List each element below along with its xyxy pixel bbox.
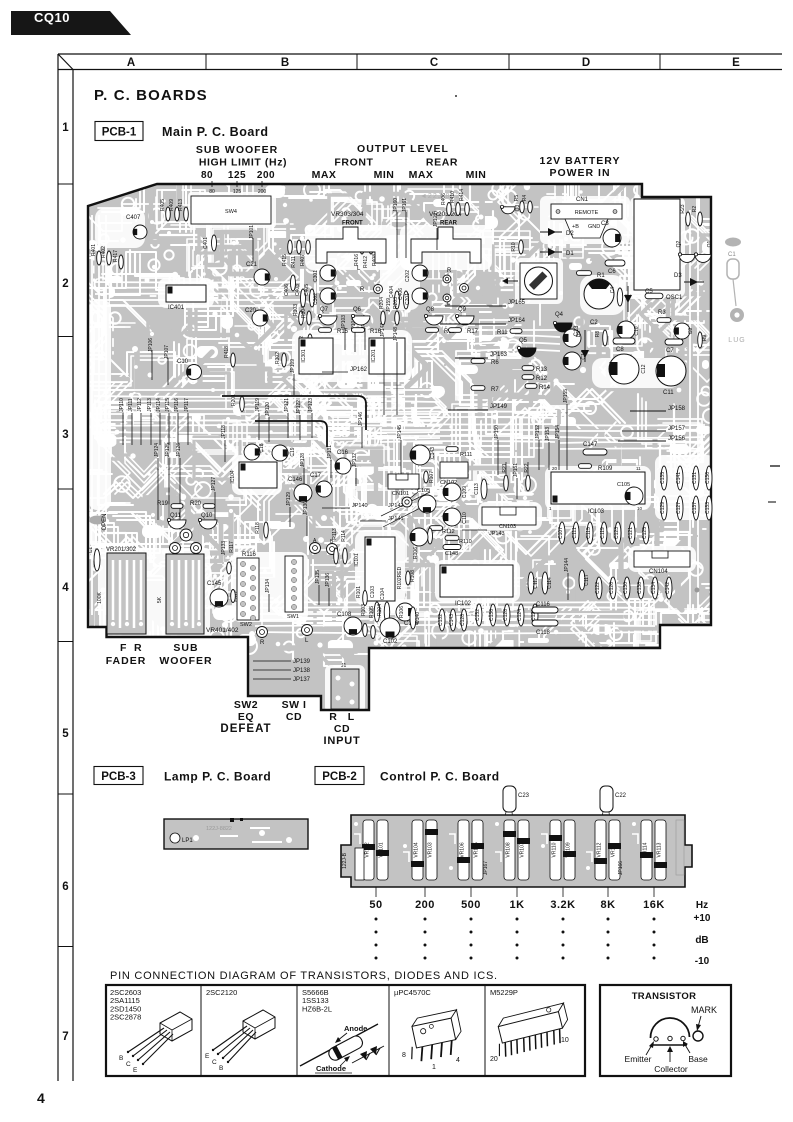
PCB-1 label — [95, 122, 143, 141]
svg-text:C136: C136 — [489, 609, 495, 621]
svg-text:20: 20 — [490, 1056, 498, 1063]
svg-text:C19: C19 — [290, 447, 296, 456]
svg-text:C108: C108 — [337, 612, 352, 618]
svg-text:C118: C118 — [536, 630, 551, 636]
capacitor C401 — [212, 235, 217, 251]
svg-text:R114: R114 — [341, 530, 347, 542]
capacitor C122 — [596, 577, 602, 599]
svg-text:R4: R4 — [522, 195, 528, 202]
svg-text:Q7: Q7 — [320, 307, 329, 313]
svg-text:FRONT: FRONT — [342, 221, 363, 227]
svg-text:OPEN: OPEN — [102, 513, 108, 530]
svg-text:C148: C148 — [445, 551, 458, 557]
svg-text:R417: R417 — [113, 250, 119, 262]
svg-text:JP161: JP161 — [402, 198, 408, 212]
PCB-2 label — [315, 767, 364, 785]
svg-text:JP106: JP106 — [148, 338, 154, 352]
svg-text:7: 7 — [62, 1031, 68, 1043]
svg-text:R102RED: R102RED — [397, 566, 403, 589]
capacitor C132 — [439, 609, 445, 631]
resistor R418 — [231, 353, 236, 367]
svg-text:SW4: SW4 — [225, 209, 237, 215]
svg-text:JP149: JP149 — [490, 404, 508, 410]
svg-text:Q9: Q9 — [458, 307, 467, 313]
capacitors C13 C14 — [563, 329, 581, 347]
svg-text:MARK: MARK — [691, 1005, 717, 1015]
capacitor C126 — [610, 577, 616, 599]
svg-text:D2: D2 — [566, 231, 574, 237]
svg-text:C: C — [430, 57, 438, 69]
svg-text:Q11: Q11 — [170, 513, 182, 519]
svg-text:CN1: CN1 — [576, 197, 589, 203]
transistors Q2 Q1 — [679, 254, 695, 262]
svg-text:JP160: JP160 — [393, 198, 399, 212]
capacitor C137 — [693, 496, 699, 520]
capacitor C4 — [617, 288, 623, 306]
capacitor C131 — [693, 466, 699, 490]
IC102 — [440, 565, 513, 597]
svg-text:TRANSISTOR: TRANSISTOR — [632, 991, 697, 1002]
svg-text:100K: 100K — [97, 592, 103, 604]
potentiometer VR401/402 subwoofer — [166, 554, 204, 634]
svg-text:JP153: JP153 — [545, 427, 551, 441]
svg-text:A: A — [127, 57, 135, 69]
svg-text:-10: -10 — [695, 956, 710, 967]
resistors R303 R304 — [299, 311, 304, 325]
capacitor C152 — [476, 604, 482, 626]
svg-text:REAR: REAR — [440, 221, 458, 227]
resistors R13 R12 R14 — [522, 366, 534, 371]
transistors Q7 Q6 Q8 Q9 — [319, 316, 337, 325]
resistors R112 R110 + capacitor C148 — [430, 526, 443, 531]
svg-text:JP162: JP162 — [350, 367, 368, 373]
svg-text:CN103: CN103 — [499, 524, 516, 530]
svg-text:C104: C104 — [380, 588, 386, 600]
svg-text:C130: C130 — [623, 582, 629, 594]
capacitor C1 wire lug assembly — [725, 238, 741, 247]
svg-text:R107: R107 — [429, 471, 435, 483]
svg-text:JP165: JP165 — [508, 300, 526, 306]
svg-text:C119: C119 — [600, 527, 606, 539]
resistors R6 R7 — [471, 359, 485, 364]
svg-text:VR110: VR110 — [552, 842, 558, 857]
svg-text:C3: C3 — [601, 221, 609, 227]
svg-text:JP114: JP114 — [156, 398, 162, 412]
resistors R405 R409 R413 — [166, 207, 171, 221]
capacitor C3 — [603, 229, 621, 247]
capacitor C125 — [643, 522, 649, 544]
IC301 — [299, 338, 333, 374]
svg-text:PCB-1: PCB-1 — [102, 127, 137, 139]
svg-text:REAR: REAR — [426, 157, 458, 169]
svg-text:JP141: JP141 — [388, 516, 404, 522]
svg-text:VR112: VR112 — [597, 842, 603, 857]
svg-text:J1: J1 — [341, 663, 347, 669]
svg-text:IC201: IC201 — [371, 349, 377, 363]
capacitors C202 C201 — [412, 265, 428, 281]
svg-text:C103: C103 — [370, 586, 376, 598]
svg-text:VR108: VR108 — [506, 842, 512, 858]
capacitor C146 — [294, 484, 312, 502]
svg-text:JP139: JP139 — [293, 659, 311, 665]
svg-text:D1: D1 — [566, 251, 574, 257]
capacitors C116 C118 — [532, 607, 558, 613]
svg-text:R110: R110 — [459, 539, 472, 545]
svg-text:6: 6 — [62, 881, 68, 893]
svg-text:R: R — [329, 711, 337, 723]
resistors R416 R412 R408 — [360, 240, 365, 254]
svg-text:EQ: EQ — [238, 711, 254, 723]
svg-text:C140: C140 — [415, 612, 421, 624]
diode D5 — [584, 330, 586, 362]
svg-text:CN101: CN101 — [392, 491, 409, 497]
svg-text:5: 5 — [62, 728, 69, 740]
resistors R19 R20 — [171, 504, 183, 509]
pin diagram main box — [106, 985, 585, 1076]
diode symbol — [352, 1046, 384, 1063]
lamp LP1 — [170, 833, 180, 843]
capacitor C120 — [532, 604, 538, 626]
slide pot VR102/VR101 — [363, 820, 374, 880]
svg-text:JP115: JP115 — [165, 398, 171, 412]
capacitor C142 — [666, 577, 672, 599]
lamp board LP1 — [164, 819, 308, 849]
wire to CN101 — [381, 492, 430, 516]
svg-text:JP138: JP138 — [293, 668, 311, 674]
svg-text:JP124: JP124 — [154, 443, 160, 457]
svg-text:3.2K: 3.2K — [550, 899, 575, 911]
capacitor C117 — [579, 570, 585, 590]
capacitor C136 — [706, 466, 712, 490]
capacitor C108 — [344, 617, 362, 635]
svg-text:JP157: JP157 — [668, 426, 686, 432]
svg-text:C12: C12 — [641, 364, 647, 373]
svg-text:4: 4 — [37, 1090, 45, 1106]
capacitor C106b — [410, 528, 428, 546]
svg-text:C6: C6 — [608, 269, 616, 275]
capacitor C402 — [308, 334, 313, 350]
svg-text:PIN CONNECTION DIAGRAM OF TRAN: PIN CONNECTION DIAGRAM OF TRANSISTORS, D… — [110, 970, 498, 982]
svg-text:C201: C201 — [405, 293, 411, 305]
pads — [180, 529, 192, 541]
svg-text:R1: R1 — [597, 273, 605, 279]
connector CN104 — [634, 551, 690, 567]
svg-text:200: 200 — [415, 899, 435, 911]
svg-text:C10: C10 — [634, 326, 640, 335]
svg-text:+B: +B — [572, 224, 579, 230]
capacitor C23 — [503, 786, 516, 812]
capacitor C21 — [254, 269, 270, 285]
slide pot VR110/VR109 — [550, 820, 561, 880]
capacitor C130 — [624, 577, 630, 599]
svg-text:C301: C301 — [313, 270, 319, 282]
svg-text:E: E — [732, 57, 740, 69]
svg-text:R10: R10 — [511, 242, 517, 251]
svg-text:R108: R108 — [410, 570, 416, 582]
svg-text:C125: C125 — [642, 527, 648, 539]
svg-text:R103: R103 — [361, 604, 367, 616]
svg-text:FRONT: FRONT — [334, 157, 373, 169]
capacitor C119 — [601, 522, 607, 544]
svg-text:C8: C8 — [616, 347, 624, 353]
marking OPEN — [89, 516, 105, 525]
svg-text:Q4: Q4 — [555, 312, 564, 318]
svg-text:JP155: JP155 — [563, 389, 569, 403]
switch SW2 — [237, 558, 259, 620]
svg-text:C121: C121 — [628, 527, 634, 539]
svg-text:Q1: Q1 — [707, 240, 713, 247]
svg-text:JP150: JP150 — [494, 425, 500, 439]
svg-text:JP129: JP129 — [286, 492, 292, 506]
svg-text:C129: C129 — [660, 502, 666, 514]
svg-text:20: 20 — [552, 466, 558, 471]
capacitor C12 (large) — [609, 354, 639, 384]
svg-text:8K: 8K — [600, 899, 615, 911]
svg-text:R5: R5 — [514, 195, 520, 202]
svg-text:MAX: MAX — [409, 169, 434, 181]
capacitor C106 — [396, 603, 414, 621]
svg-text:R113: R113 — [332, 528, 338, 540]
svg-text:500: 500 — [461, 899, 481, 911]
resistors R15 R16 R18 R17 — [319, 328, 332, 333]
svg-text:Q2: Q2 — [676, 240, 682, 247]
capacitor C128 — [461, 609, 467, 631]
IC104 — [239, 462, 277, 488]
capacitor C8 — [613, 338, 635, 344]
svg-text:R19: R19 — [157, 501, 169, 507]
capacitor C123 — [615, 522, 621, 544]
svg-text:C115: C115 — [586, 527, 592, 539]
svg-text:C405: C405 — [304, 284, 310, 296]
svg-text:JP121: JP121 — [284, 398, 290, 412]
svg-text:R: R — [447, 268, 452, 274]
svg-text:JP152: JP152 — [535, 425, 541, 439]
DIP-8 package (cell 4) — [404, 1010, 466, 1063]
svg-text:R118: R118 — [255, 522, 261, 534]
svg-text:C112: C112 — [533, 577, 539, 589]
resistor R8 — [603, 330, 608, 346]
resistor R201 — [240, 397, 245, 412]
svg-text:C10: C10 — [177, 359, 189, 365]
svg-text:C111: C111 — [572, 527, 578, 538]
svg-text:11: 11 — [636, 466, 641, 471]
svg-text:R204: R204 — [379, 297, 385, 309]
svg-text:R302: R302 — [275, 352, 281, 364]
svg-text:OSC1: OSC1 — [666, 295, 683, 301]
svg-text:CD: CD — [334, 723, 350, 735]
svg-text:IC401: IC401 — [168, 305, 185, 311]
svg-text:HZ6B-2L: HZ6B-2L — [302, 1004, 332, 1013]
svg-text:R8: R8 — [595, 331, 601, 338]
resistors R406 R410 R414 — [447, 203, 452, 216]
capacitor C111 — [573, 522, 579, 544]
svg-text:MIN: MIN — [466, 169, 487, 181]
svg-text:Emitter: Emitter — [625, 1054, 652, 1064]
svg-text:INPUT: INPUT — [324, 735, 361, 747]
svg-text:JP117: JP117 — [184, 398, 190, 412]
svg-text:C11: C11 — [663, 390, 674, 396]
svg-text:R9: R9 — [702, 335, 708, 342]
svg-text:SW1: SW1 — [287, 614, 299, 620]
svg-text:C117: C117 — [584, 574, 590, 586]
svg-text:VR201/302: VR201/302 — [106, 547, 137, 553]
capacitor C144 — [428, 528, 433, 544]
svg-text:C: C — [212, 1059, 217, 1066]
svg-text:C1: C1 — [88, 547, 94, 554]
svg-text:C18: C18 — [259, 443, 265, 452]
svg-text:C404: C404 — [389, 286, 395, 298]
capacitor C121 — [629, 522, 635, 544]
resistor R109 — [579, 464, 592, 469]
transistor Q5 (black) — [518, 348, 536, 357]
svg-text:JP101: JP101 — [249, 225, 255, 239]
capacitor C141 — [677, 466, 683, 490]
resistor R11 — [510, 329, 522, 334]
TRANSISTOR pinout box — [600, 985, 731, 1076]
svg-text:C22: C22 — [615, 793, 627, 799]
svg-text:JP151: JP151 — [513, 463, 519, 477]
capacitor C115 — [587, 522, 593, 544]
capacitor C145 — [210, 589, 228, 607]
svg-text:200: 200 — [257, 170, 275, 181]
svg-text:200: 200 — [258, 189, 267, 195]
svg-text:3: 3 — [62, 429, 68, 441]
capacitor C128 — [504, 604, 510, 626]
capacitor C406 — [291, 275, 296, 291]
capacitors C404 C406 — [395, 291, 400, 309]
capacitor C17 — [316, 481, 332, 497]
svg-text:JP107: JP107 — [164, 345, 170, 359]
svg-text:JP145: JP145 — [397, 425, 403, 439]
svg-text:C302: C302 — [313, 293, 319, 305]
svg-text:C5: C5 — [645, 289, 653, 295]
svg-text:C136: C136 — [705, 472, 711, 484]
slide pot VR114/VR113 — [641, 820, 652, 880]
connector CN102 — [440, 462, 468, 478]
svg-text:C145: C145 — [207, 581, 222, 587]
connector CN101 — [388, 474, 419, 489]
resistor R118 — [264, 522, 269, 538]
svg-text:Base: Base — [688, 1054, 708, 1064]
svg-text:C143: C143 — [430, 447, 436, 459]
svg-text:R411: R411 — [291, 256, 297, 268]
svg-text:C152: C152 — [475, 609, 481, 621]
svg-text:2SC2120: 2SC2120 — [206, 988, 237, 997]
svg-text:E: E — [133, 1067, 138, 1074]
svg-text:R413: R413 — [178, 199, 184, 211]
svg-text:C122: C122 — [595, 582, 601, 594]
transistor Q3 — [501, 207, 515, 214]
svg-text:JP137: JP137 — [293, 677, 311, 683]
svg-text:C143: C143 — [449, 614, 455, 626]
svg-text:JP148: JP148 — [393, 327, 399, 341]
svg-text:2SC2878: 2SC2878 — [110, 1013, 141, 1022]
svg-text:C128: C128 — [503, 609, 509, 621]
svg-text:C138: C138 — [637, 582, 643, 594]
svg-text:JP163: JP163 — [490, 352, 508, 358]
capacitor C1 board — [94, 549, 100, 571]
svg-text:VR104: VR104 — [414, 842, 420, 858]
svg-text:IC103: IC103 — [588, 509, 605, 515]
svg-text:R17: R17 — [467, 329, 479, 335]
resistors R401 R402 R417 — [97, 251, 102, 265]
svg-text:R304: R304 — [301, 306, 307, 318]
slide pot VR112/VR111 — [595, 820, 606, 880]
svg-text:JP119: JP119 — [255, 398, 261, 412]
svg-text:1: 1 — [62, 122, 69, 134]
svg-text:D: D — [582, 57, 590, 69]
svg-text:JP159: JP159 — [386, 298, 392, 312]
svg-text:PCB-2: PCB-2 — [322, 771, 357, 783]
svg-text:PCB-3: PCB-3 — [101, 771, 136, 783]
svg-text:R11: R11 — [497, 330, 508, 336]
svg-text:Hz: Hz — [696, 900, 708, 911]
capacitor C147 — [583, 449, 607, 455]
svg-text:C131: C131 — [692, 472, 698, 484]
svg-text:VR103: VR103 — [428, 842, 434, 858]
svg-text:C9: C9 — [688, 328, 694, 335]
svg-text:JP140: JP140 — [352, 503, 368, 509]
wire bend 1 — [255, 421, 327, 447]
capacitor C143 — [450, 609, 456, 631]
capacitor C102 — [380, 618, 400, 638]
svg-text:JP110: JP110 — [119, 398, 125, 412]
resistors R204 R203 + jumper JP159 — [381, 311, 386, 325]
svg-text:R112: R112 — [442, 529, 455, 535]
svg-text:2: 2 — [62, 278, 68, 290]
svg-text:JP132: JP132 — [352, 453, 358, 467]
capacitor C127 — [677, 496, 683, 520]
transistor bottom view — [650, 1018, 689, 1038]
switch SW1 — [285, 556, 303, 612]
svg-text:R2: R2 — [692, 206, 698, 213]
svg-text:Q8: Q8 — [426, 307, 435, 313]
capacitors C109 C110 — [443, 483, 461, 501]
capacitor C138 — [638, 577, 644, 599]
svg-text:R416: R416 — [354, 254, 360, 266]
svg-text:C107: C107 — [558, 527, 564, 539]
svg-text:R104: R104 — [377, 604, 383, 616]
svg-text:B: B — [281, 57, 289, 69]
svg-text:1: 1 — [432, 1064, 436, 1071]
svg-text:C113: C113 — [474, 483, 480, 495]
svg-text:DEFEAT: DEFEAT — [220, 723, 271, 735]
svg-text:IC301: IC301 — [301, 349, 307, 363]
svg-text:R20: R20 — [190, 501, 202, 507]
svg-text:CN104: CN104 — [649, 569, 668, 575]
resistor R10 — [519, 240, 524, 254]
svg-text:12V BATTERY: 12V BATTERY — [539, 155, 620, 167]
svg-text:JP166: JP166 — [618, 861, 624, 875]
capacitor C133 — [706, 496, 712, 520]
svg-text:C406: C406 — [284, 284, 290, 296]
slide pot VR104/VR103 — [412, 820, 423, 880]
resistor R1 — [577, 271, 592, 276]
svg-text:R117: R117 — [229, 541, 235, 553]
slide pot VR106/VR105 — [458, 820, 469, 880]
svg-text:SUB: SUB — [173, 642, 198, 654]
IC201 — [369, 338, 405, 374]
svg-text:L: L — [348, 711, 355, 723]
pads R L — [310, 543, 321, 554]
svg-text:IC101: IC101 — [354, 553, 360, 567]
svg-text:POWER IN: POWER IN — [549, 167, 610, 179]
svg-text:JP113: JP113 — [147, 398, 153, 412]
svg-text:C21: C21 — [246, 262, 258, 268]
svg-text:C128: C128 — [460, 614, 466, 626]
svg-text:R111: R111 — [460, 452, 472, 458]
svg-text:JP133: JP133 — [221, 541, 227, 555]
